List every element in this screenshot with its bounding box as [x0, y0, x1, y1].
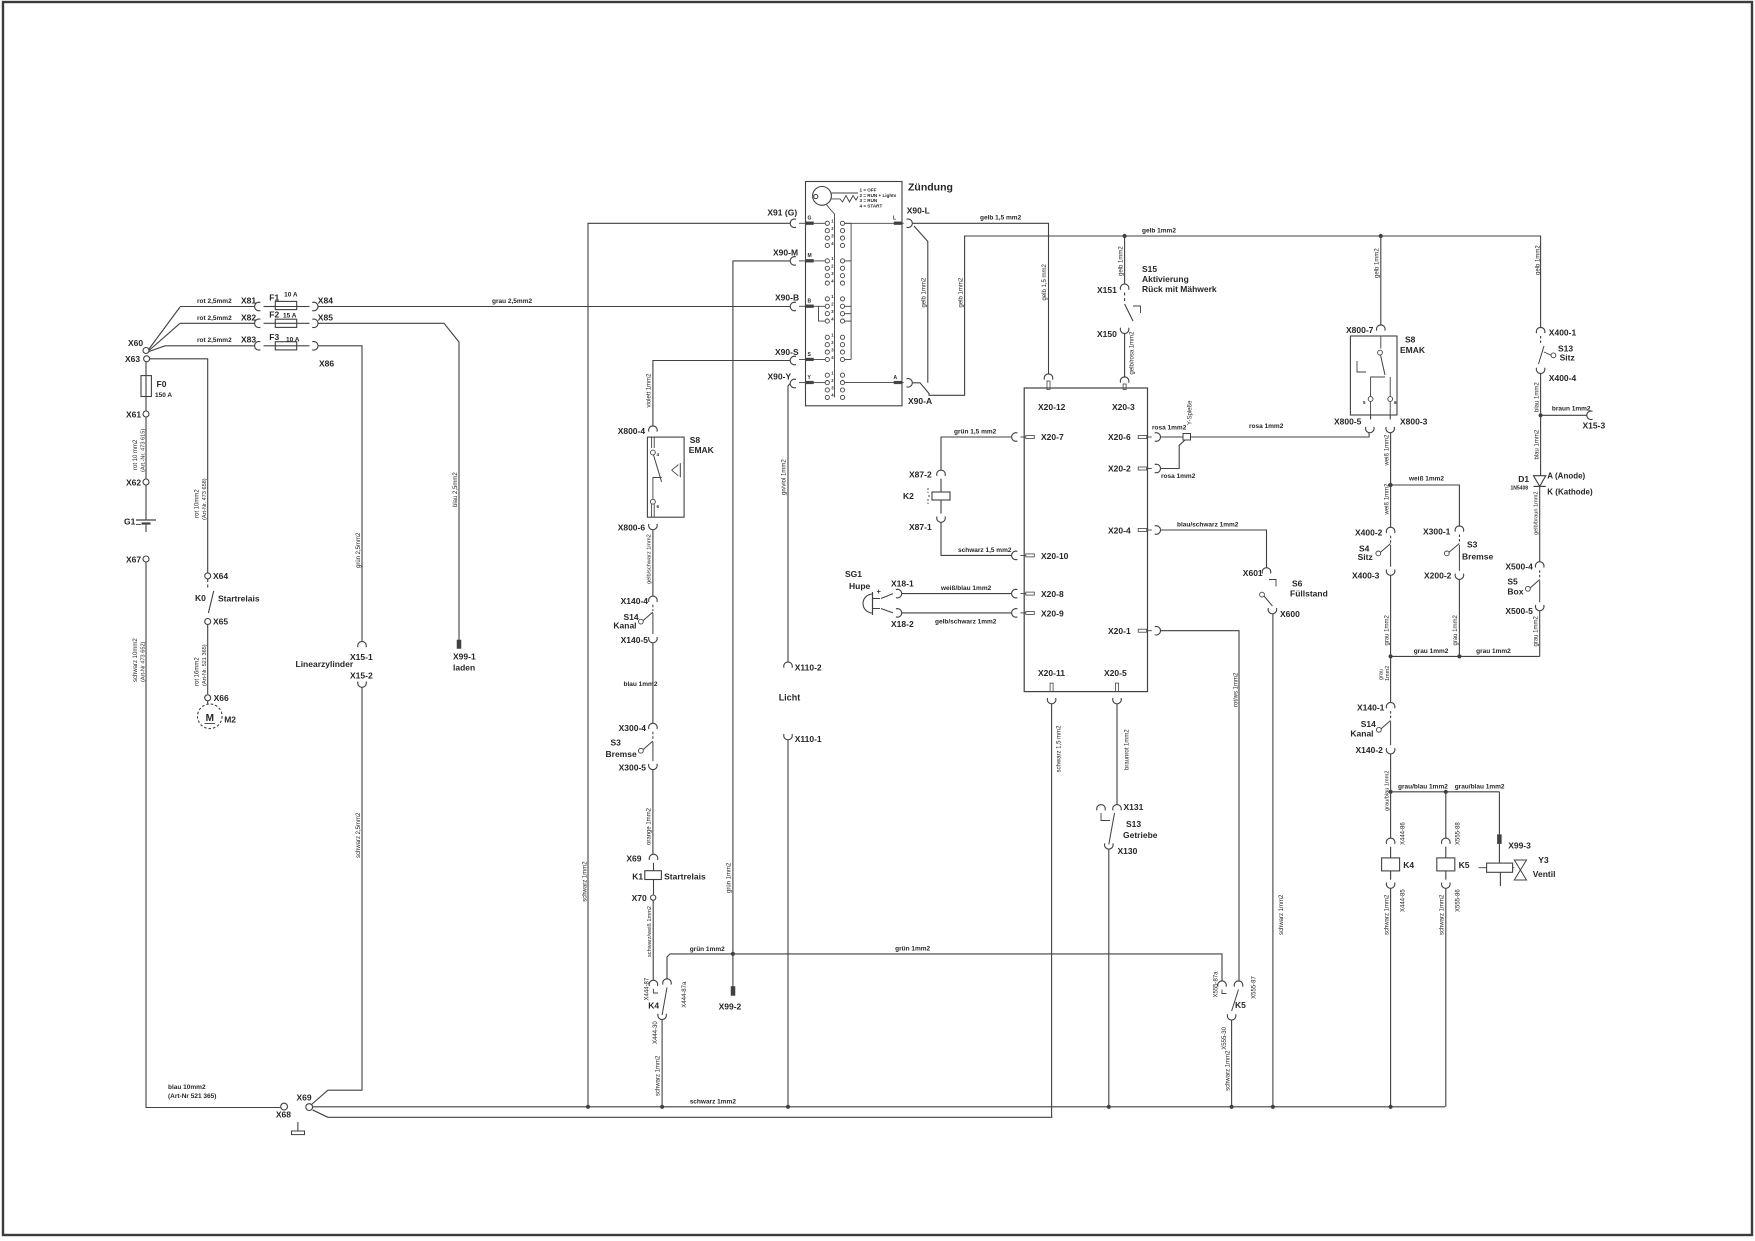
svg-text:(Art.-Nr. 473 615): (Art.-Nr. 473 615) — [141, 429, 147, 472]
svg-text:X82: X82 — [241, 313, 256, 323]
connector X555-87a — [1218, 981, 1227, 987]
wire X65 to X66 (rot 16mm2) — [207, 625, 209, 695]
svg-text:gelb 1,5 mm2: gelb 1,5 mm2 — [1042, 263, 1048, 300]
svg-text:Hupe: Hupe — [849, 581, 871, 591]
terminal X70 — [651, 895, 656, 900]
connector X444-87a — [663, 979, 672, 985]
svg-text:rot 16mm2: rot 16mm2 — [195, 657, 201, 686]
valve Y3 Ventil — [1498, 844, 1500, 864]
connector X90-M — [790, 257, 796, 266]
svg-text:S: S — [808, 352, 812, 358]
connector X20-1 arc — [1155, 626, 1161, 635]
wire grau junction to X140-1 — [1390, 656, 1392, 702]
terminal X68 — [281, 1103, 288, 1110]
svg-text:rot 2,5mm2: rot 2,5mm2 — [197, 337, 232, 344]
wire X91 to lower-left (schwarz 1mm2) — [588, 223, 790, 1107]
wire X20-5 to X131 (braunrot 1mm2) — [1116, 704, 1118, 805]
svg-text:EMAK: EMAK — [689, 445, 715, 455]
fuse F3 10A — [275, 342, 296, 350]
svg-text:3: 3 — [831, 233, 834, 238]
wire X63 down to F0 — [145, 362, 147, 376]
svg-text:X87-2: X87-2 — [909, 470, 932, 480]
svg-text:X20-12: X20-12 — [1038, 402, 1066, 412]
svg-text:rot 10mm2: rot 10mm2 — [195, 489, 201, 518]
wire X60 to F1 row — [149, 307, 180, 349]
wire X90-Y to X110-2 (gn/viol 1mm2) — [788, 384, 790, 663]
svg-text:1N5408: 1N5408 — [1511, 486, 1529, 492]
svg-text:1: 1 — [831, 294, 834, 299]
pin X20-4 — [1138, 529, 1147, 532]
svg-text:X131: X131 — [1124, 802, 1144, 812]
svg-text:X70: X70 — [632, 893, 647, 903]
svg-text:grau 1mm2: grau 1mm2 — [1384, 614, 1390, 645]
connector X800-6 — [649, 524, 658, 530]
connector X90-Y — [790, 379, 796, 388]
svg-text:rot 10 mm2: rot 10 mm2 — [133, 439, 139, 470]
wire X444-30 to bus1 (schwarz 1mm2) — [661, 1020, 663, 1107]
svg-text:F3: F3 — [269, 332, 279, 342]
svg-text:X555-87a: X555-87a — [1214, 971, 1220, 998]
svg-text:4: 4 — [831, 393, 834, 398]
svg-text:grün 1mm2: grün 1mm2 — [690, 946, 725, 953]
controller box X20 — [1024, 388, 1147, 692]
svg-text:Startrelais: Startrelais — [218, 594, 260, 604]
connector X87-2 — [937, 470, 946, 476]
svg-text:2: 2 — [831, 264, 834, 269]
junction grau bus left — [1389, 654, 1393, 658]
svg-text:grau/blau 1mm2: grau/blau 1mm2 — [1455, 783, 1505, 790]
junction K4 / bus1 — [1389, 1105, 1393, 1109]
svg-text:X555-86: X555-86 — [1456, 889, 1462, 912]
switch S15 — [1124, 293, 1126, 303]
svg-text:gelb 1mm2: gelb 1mm2 — [1118, 246, 1124, 276]
connector X86 — [312, 342, 318, 351]
svg-text:X90-Y: X90-Y — [768, 372, 792, 382]
wire to X444-86 — [1390, 792, 1392, 838]
svg-text:L: L — [893, 216, 896, 222]
svg-text:rosa 1mm2: rosa 1mm2 — [1152, 425, 1187, 432]
svg-text:1mm2: 1mm2 — [1385, 666, 1391, 681]
svg-text:X140-2: X140-2 — [1356, 745, 1384, 755]
svg-text:X69: X69 — [626, 854, 641, 864]
svg-text:rosa 1mm2: rosa 1mm2 — [1249, 423, 1284, 430]
svg-text:schwarz 2,5mm2: schwarz 2,5mm2 — [356, 812, 362, 858]
wire X20-4 to X601 (blau/schwarz 1mm2) — [1161, 530, 1267, 568]
connector X99-3 — [1497, 835, 1501, 844]
svg-text:laden: laden — [453, 663, 475, 673]
svg-text:X20-2: X20-2 — [1108, 464, 1131, 474]
pin X20-7 — [1026, 436, 1035, 439]
relay coil K5 — [1445, 847, 1447, 858]
svg-text:grün 1,5 mm2: grün 1,5 mm2 — [954, 429, 997, 436]
switch S6 Fuellstand — [1269, 580, 1276, 587]
wire X90-A to east bus (gelb 1mm2) — [912, 236, 1540, 395]
connector X90-A — [907, 379, 913, 388]
svg-text:blau 10mm2: blau 10mm2 — [168, 1084, 206, 1091]
svg-text:Licht: Licht — [779, 693, 801, 703]
svg-text:gelb/braun 1mm2: gelb/braun 1mm2 — [1533, 491, 1539, 535]
svg-text:gelb 1mm2: gelb 1mm2 — [958, 277, 964, 307]
wire X20-7 to X87-2 (gruen 1,5mm2) — [941, 437, 1012, 470]
svg-text:A (Anode): A (Anode) — [1547, 472, 1585, 481]
svg-text:Zündung: Zündung — [908, 182, 953, 194]
svg-text:4: 4 — [657, 452, 660, 457]
connector X500-5 — [1535, 605, 1544, 611]
svg-text:Bremse: Bremse — [606, 749, 637, 759]
wire to X99-3 / Y3 — [1498, 792, 1500, 835]
svg-text:(Art-Nr 521 365): (Art-Nr 521 365) — [168, 1093, 216, 1100]
connector X800-4 — [649, 426, 658, 432]
wire D1 to X500-4 (gelb/braun 1mm2) — [1539, 486, 1541, 561]
svg-text:X140-5: X140-5 — [621, 635, 649, 645]
wire X800-3 down (weiss 1mm2) — [1390, 433, 1392, 485]
svg-text:X20-3: X20-3 — [1112, 402, 1135, 412]
pin X20-12 — [1047, 381, 1050, 390]
svg-text:orange 1mm2: orange 1mm2 — [647, 807, 653, 845]
svg-text:blau 1mm2: blau 1mm2 — [1534, 382, 1540, 412]
connector X90-L — [907, 219, 913, 228]
wire X18-1 to X20-8 (weiss/blau 1mm2) — [902, 593, 1012, 595]
connector X20-5 arc — [1113, 698, 1122, 704]
relay coil K4 — [1390, 847, 1392, 858]
svg-text:grün 2,5mm2: grün 2,5mm2 — [356, 532, 362, 568]
svg-text:K4: K4 — [1403, 860, 1414, 870]
svg-text:3: 3 — [831, 385, 834, 390]
wire gruen 1mm2 bus — [667, 954, 1222, 981]
svg-text:Y-Spleße: Y-Spleße — [1188, 400, 1194, 425]
svg-text:1: 1 — [831, 333, 834, 338]
connector X444-86 — [1386, 838, 1395, 844]
wire X61 to X62 (rot 10mm2) — [145, 417, 147, 479]
wire X63 to X64 (rot 10mm2) — [150, 359, 208, 573]
svg-text:X91 (G): X91 (G) — [767, 208, 797, 218]
wire to X82 — [180, 322, 255, 324]
svg-text:X500-4: X500-4 — [1505, 562, 1533, 572]
svg-text:Y: Y — [808, 375, 812, 381]
wire X300-5 to X69 (orange 1mm2) — [652, 770, 654, 855]
connector X82 — [255, 319, 261, 328]
svg-text:X140-1: X140-1 — [1357, 703, 1385, 713]
pin X20-3 — [1123, 384, 1126, 390]
connector X15-1 — [358, 642, 367, 648]
svg-text:X20-8: X20-8 — [1041, 589, 1064, 599]
connector X81 — [255, 302, 261, 311]
grau/blau bus — [1391, 791, 1500, 793]
svg-text:gelb 1mm2: gelb 1mm2 — [1375, 248, 1381, 278]
svg-text:D1: D1 — [1518, 474, 1529, 484]
connector X15-3 — [1587, 411, 1593, 420]
svg-text:X61: X61 — [126, 410, 141, 420]
svg-text:schwarz 1mm2: schwarz 1mm2 — [1440, 894, 1446, 935]
connector X800-3 — [1386, 427, 1395, 433]
S8 right blade — [1381, 355, 1386, 375]
wire X555-86 to bus1 end — [1445, 888, 1447, 1107]
svg-text:F1: F1 — [269, 293, 279, 303]
connector X500-4 — [1535, 562, 1544, 568]
terminal S — [806, 358, 814, 361]
svg-text:blau 2,5mm2: blau 2,5mm2 — [453, 472, 459, 507]
wire X90-M down (gruen 1mm2) — [733, 261, 790, 987]
svg-text:X110-2: X110-2 — [795, 663, 822, 673]
pin X20-5 — [1116, 683, 1119, 692]
wire X110-1 down to bus1 — [787, 740, 789, 1107]
svg-text:K0: K0 — [195, 593, 206, 603]
junction X600 / bus1 — [1271, 1105, 1275, 1109]
node X63 — [144, 356, 150, 362]
svg-text:weiß 1mm2: weiß 1mm2 — [1384, 483, 1390, 516]
svg-text:violett 1mm2: violett 1mm2 — [647, 373, 653, 408]
svg-text:X65: X65 — [213, 617, 228, 627]
connector X555-88 — [1442, 838, 1451, 844]
svg-text:1 = OFF: 1 = OFF — [860, 188, 877, 193]
svg-text:3: 3 — [831, 271, 834, 276]
connector X84 — [312, 302, 318, 311]
wire to X81 — [180, 306, 255, 308]
svg-text:rot/ws 1mm2: rot/ws 1mm2 — [1234, 672, 1240, 707]
svg-text:X800-4: X800-4 — [618, 426, 646, 436]
connector X130 — [1105, 843, 1114, 849]
connector X20-12 pin arc — [1044, 374, 1053, 380]
svg-text:rot 2,5mm2: rot 2,5mm2 — [197, 298, 232, 305]
svg-text:X15-2: X15-2 — [350, 671, 373, 681]
connector X140-4 — [649, 596, 658, 602]
svg-text:(Art-Nr 473 652): (Art-Nr 473 652) — [141, 641, 147, 682]
svg-text:weiß 1mm2: weiß 1mm2 — [1384, 434, 1390, 467]
svg-text:4: 4 — [831, 316, 834, 321]
junction X444-30 / bus1 — [660, 1105, 664, 1109]
svg-text:X400-4: X400-4 — [1549, 373, 1577, 383]
wire X60 to F2 row — [149, 323, 180, 350]
junction X110-1 / bus1 — [786, 1105, 790, 1109]
svg-text:10 A: 10 A — [286, 337, 300, 344]
X90-L branch diagonal — [914, 226, 928, 383]
junction gelb bus / X800-7 branch — [1379, 234, 1383, 238]
node X60 — [143, 348, 149, 354]
bus wire 2 X69 to X20-11 — [313, 1110, 1053, 1117]
svg-text:Füllstand: Füllstand — [1290, 589, 1328, 599]
svg-text:X130: X130 — [1118, 846, 1138, 856]
grau bus wire — [1391, 655, 1540, 657]
connector X140-1 — [1386, 703, 1395, 709]
svg-text:X140-4: X140-4 — [621, 596, 649, 606]
svg-text:grau 1mm2: grau 1mm2 — [1453, 614, 1459, 645]
junction grau bus right — [1457, 654, 1461, 658]
connector X140-5 — [649, 637, 658, 643]
svg-text:gelb/schwarz 1mm2: gelb/schwarz 1mm2 — [647, 534, 653, 584]
svg-text:rosa 1mm2: rosa 1mm2 — [1161, 473, 1196, 480]
svg-text:X69: X69 — [297, 1093, 312, 1103]
terminal L — [894, 222, 902, 225]
svg-text:S8: S8 — [1405, 335, 1416, 345]
wire X400-3 to grau junction (grau 1mm2) — [1390, 575, 1392, 656]
pin X20-10 — [1026, 554, 1035, 557]
connector X20-7 arc — [1012, 433, 1018, 442]
junction X15-3 branch — [1539, 413, 1543, 417]
svg-text:150 A: 150 A — [155, 392, 172, 399]
wire X85 to X99-1 (blau 2,5mm2) — [318, 323, 459, 640]
svg-text:3 = RUN: 3 = RUN — [860, 198, 878, 203]
svg-text:M2: M2 — [224, 715, 236, 725]
ignition switch S? Zuendung box — [806, 182, 903, 406]
connector X20-9 arc — [1012, 609, 1018, 618]
wire X800-6 to X140-4 (gelb/schwarz 1mm2) — [652, 530, 654, 596]
svg-text:X86: X86 — [319, 359, 334, 369]
svg-text:X83: X83 — [241, 335, 256, 345]
svg-text:4: 4 — [831, 241, 834, 246]
svg-text:4 = START: 4 = START — [860, 203, 883, 208]
svg-text:SG1: SG1 — [845, 569, 862, 579]
svg-text:S6: S6 — [1292, 579, 1303, 589]
terminal X69 — [306, 1104, 313, 1111]
junction grau/blau right — [1444, 790, 1448, 794]
svg-text:B: B — [808, 299, 812, 305]
svg-text:X20-4: X20-4 — [1108, 526, 1131, 536]
svg-text:X400-2: X400-2 — [1355, 528, 1383, 538]
svg-text:gn/viol 1mm2: gn/viol 1mm2 — [782, 459, 788, 495]
svg-text:X600: X600 — [1280, 609, 1300, 619]
svg-text:schwarz 1mm2: schwarz 1mm2 — [1225, 1050, 1231, 1091]
connector X110-2 — [784, 662, 793, 668]
svg-text:F2: F2 — [269, 310, 279, 320]
svg-text:F0: F0 — [157, 379, 167, 389]
svg-text:X99-1: X99-1 — [453, 652, 476, 662]
svg-text:X444-87: X444-87 — [645, 977, 651, 1000]
pin X20-6 — [1138, 436, 1147, 439]
svg-text:X555-30: X555-30 — [1222, 1026, 1228, 1049]
Y splice — [1183, 434, 1191, 441]
switch S13 Getriebe — [1097, 805, 1106, 811]
svg-text:2: 2 — [831, 302, 834, 307]
connector X85 — [312, 319, 318, 328]
svg-text:X150: X150 — [1097, 329, 1117, 339]
svg-text:6: 6 — [657, 504, 660, 509]
connector X87-1 — [937, 517, 946, 523]
wire weiss branch to X300-1 — [1391, 485, 1460, 526]
terminal G — [806, 222, 814, 225]
svg-text:X500-5: X500-5 — [1505, 606, 1533, 616]
svg-text:EMAK: EMAK — [1400, 345, 1426, 355]
svg-text:rot 2,5mm2: rot 2,5mm2 — [197, 315, 232, 322]
connector X18-2 — [896, 609, 902, 618]
svg-text:X84: X84 — [318, 296, 333, 306]
svg-text:G1: G1 — [124, 517, 136, 527]
wire X84 to X90-B (grau 2,5mm2) — [318, 306, 790, 308]
svg-text:Kanal: Kanal — [613, 621, 636, 631]
box S8 EMAK (right) — [1350, 336, 1397, 415]
wire weiss to X400-2 — [1390, 485, 1392, 527]
svg-text:X20-6: X20-6 — [1108, 432, 1131, 442]
connector X444-30 — [658, 1014, 667, 1020]
svg-text:4: 4 — [831, 355, 834, 360]
svg-text:X90-A: X90-A — [908, 396, 932, 406]
wire X140-5 to X300-4 (blau 1mm2) — [652, 643, 654, 723]
svg-text:S5: S5 — [1507, 577, 1518, 587]
svg-text:X99-3: X99-3 — [1508, 841, 1531, 851]
key symbol — [813, 187, 832, 206]
svg-text:A: A — [894, 375, 898, 381]
pin X20-8 — [1026, 592, 1035, 595]
svg-text:X300-5: X300-5 — [619, 763, 647, 773]
svg-text:gelb 1mm2: gelb 1mm2 — [1536, 245, 1542, 275]
wire X600 to bus1 (schwarz 1mm2) — [1272, 614, 1274, 1107]
connector X18-1 — [896, 589, 902, 598]
svg-text:X90-L: X90-L — [907, 206, 930, 216]
svg-text:Sitz: Sitz — [1358, 552, 1373, 562]
svg-text:Kanal: Kanal — [1350, 729, 1373, 739]
svg-text:X66: X66 — [214, 693, 229, 703]
wire X86 to X15-1 (gruen 2,5mm2) — [318, 346, 362, 642]
connector X151 — [1120, 284, 1129, 290]
svg-text:X444-85: X444-85 — [1401, 889, 1407, 912]
relay coil K2 — [940, 479, 942, 492]
svg-text:X60: X60 — [128, 338, 143, 348]
svg-text:gelb 1mm2: gelb 1mm2 — [922, 277, 928, 307]
svg-text:X20-10: X20-10 — [1041, 551, 1069, 561]
svg-text:X800-5: X800-5 — [1334, 417, 1362, 427]
svg-text:3: 3 — [831, 309, 834, 314]
svg-text:Ventil: Ventil — [1533, 869, 1556, 879]
connector X20-8 arc — [1012, 589, 1018, 598]
svg-text:X67: X67 — [126, 555, 141, 565]
svg-text:G: G — [808, 216, 812, 222]
wire X90-L to X20-12 (gelb 1,5mm2) — [912, 223, 1048, 374]
svg-text:X18-2: X18-2 — [891, 619, 914, 629]
svg-text:schwarz 1,5 mm2: schwarz 1,5 mm2 — [958, 547, 1012, 554]
svg-text:schwarz 1mm2: schwarz 1mm2 — [1279, 894, 1285, 935]
svg-text:X20-1: X20-1 — [1108, 626, 1131, 636]
svg-text:X62: X62 — [126, 478, 141, 488]
svg-text:S3: S3 — [1467, 540, 1478, 550]
connector X300-4 — [649, 723, 658, 729]
svg-text:X800-3: X800-3 — [1400, 417, 1428, 427]
wire X60 to F3 row — [149, 346, 165, 352]
svg-text:S14: S14 — [1361, 719, 1376, 729]
terminal X65 — [205, 619, 211, 625]
svg-text:X63: X63 — [125, 354, 140, 364]
wire branch to X15-3 (braun 1mm2) — [1541, 414, 1587, 416]
svg-text:grün 1mm2: grün 1mm2 — [727, 862, 733, 893]
svg-text:schwarz/weiß 1mm2: schwarz/weiß 1mm2 — [647, 906, 653, 957]
svg-text:X90-M: X90-M — [773, 248, 798, 258]
fuse F1 10A — [275, 301, 296, 309]
svg-text:Aktivierung: Aktivierung — [1142, 274, 1189, 284]
svg-text:X20-9: X20-9 — [1041, 608, 1064, 618]
svg-text:gelb/rosa 1mm2: gelb/rosa 1mm2 — [1130, 331, 1136, 375]
svg-text:grau 1mm2: grau 1mm2 — [1414, 648, 1449, 655]
svg-text:Bremse: Bremse — [1462, 552, 1493, 562]
wire X87-1 to X20-10 (schwarz 1,5mm2) — [941, 522, 1012, 555]
junction weiss — [1389, 483, 1393, 487]
svg-text:X555-87: X555-87 — [1252, 976, 1258, 999]
svg-text:weiß/blau 1mm2: weiß/blau 1mm2 — [940, 585, 992, 592]
wire X70 to X444-87 (schwarz/weiss 1mm2) — [652, 900, 654, 980]
svg-text:S13: S13 — [1126, 819, 1141, 829]
terminal X67 — [143, 556, 149, 562]
svg-text:schwarz 1mm2: schwarz 1mm2 — [583, 861, 589, 902]
svg-text:X20-11: X20-11 — [1038, 668, 1065, 678]
svg-text:+: + — [877, 587, 882, 596]
connector X20-10 arc — [1012, 551, 1018, 560]
bus wire 1 (schwarz 1mm2) X69 to right — [313, 1106, 1446, 1108]
wire X500-5 to grau bus — [1539, 611, 1541, 657]
connector X20-11 arc — [1047, 698, 1056, 704]
terminal X64 — [205, 573, 211, 579]
svg-text:schwarz 1mm2: schwarz 1mm2 — [656, 1055, 662, 1096]
svg-text:Y3: Y3 — [1538, 855, 1549, 865]
svg-text:braun 1mm2: braun 1mm2 — [1552, 406, 1591, 413]
svg-text:S15: S15 — [1142, 264, 1157, 274]
wire X62 to G1 — [145, 485, 147, 520]
